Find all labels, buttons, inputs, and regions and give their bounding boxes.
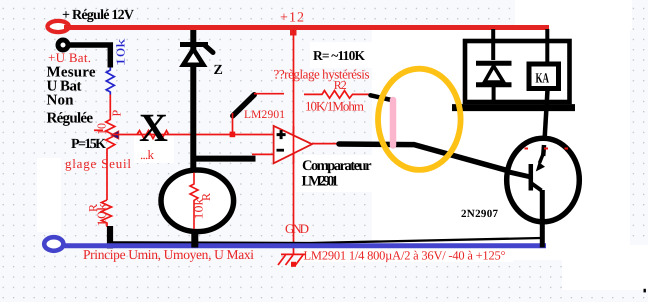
transistor collector stroke with arrow bbox=[540, 153, 544, 163]
+ input symbol bbox=[277, 130, 286, 139]
junction on + wire bbox=[230, 132, 236, 138]
svg-text:10: 10 bbox=[95, 123, 109, 135]
svg-text:GND: GND bbox=[285, 221, 309, 236]
svg-text:X: X bbox=[139, 105, 168, 150]
svg-text:+U Bat.: +U Bat. bbox=[48, 50, 91, 65]
wire: output to transistor base (thick black) bbox=[339, 144, 531, 177]
resistor 10k (blue zigzag) bbox=[106, 68, 114, 95]
svg-text:2N2907: 2N2907 bbox=[461, 208, 499, 220]
annotation: orange circle bbox=[378, 69, 461, 170]
node: battery sense terminal bbox=[58, 40, 68, 50]
flyback diode cathode bar bbox=[476, 61, 512, 66]
wire: +12V feed down to comparator supply (red vertical) bbox=[293, 29, 295, 254]
zener bent tail bbox=[205, 45, 214, 53]
resistor R2 (red zigzag horizontal) bbox=[304, 91, 372, 99]
svg-text:+ Régulé 12V: + Régulé 12V bbox=[62, 8, 134, 23]
potentiometer wiper arrow bbox=[111, 131, 119, 139]
svg-text:glage Seuil: glage Seuil bbox=[65, 156, 131, 171]
wire: reference tie bar to - input (black) bbox=[193, 156, 256, 162]
op-amp comparator U1 bbox=[274, 126, 312, 163]
flyback diode anode bar bbox=[476, 82, 512, 87]
flyback diode triangle bbox=[485, 66, 504, 82]
svg-text:Non: Non bbox=[47, 93, 75, 109]
galvanometer body bbox=[161, 170, 234, 232]
zener diode Z branch (vertical) bbox=[190, 30, 196, 171]
highlight: pink bar bbox=[390, 100, 397, 146]
bus bar under relay box bbox=[452, 104, 575, 111]
wire: KA to transistor collector bbox=[544, 90, 548, 153]
red pin marks bbox=[525, 148, 529, 150]
svg-text:LM2901: LM2901 bbox=[302, 174, 339, 190]
wire: switch to + wire bbox=[232, 113, 234, 133]
svg-text:R= ~110K: R= ~110K bbox=[313, 48, 365, 63]
junction: +12 feed on rail bbox=[290, 29, 297, 36]
resistor 10k R inside galvanometer bbox=[190, 173, 198, 230]
resistor R 10k (red zigzag, lower divider) bbox=[102, 200, 112, 227]
svg-text:+12: +12 bbox=[280, 11, 304, 26]
node: 0V terminal bbox=[44, 237, 63, 251]
ground symbol (red) bbox=[281, 253, 305, 255]
white eraser patches bbox=[372, 30, 630, 260]
svg-text:Principe Umin, Umoyen, U Maxi: Principe Umin, Umoyen, U Maxi bbox=[83, 247, 254, 262]
wire: R2 to collector node (black) bbox=[371, 95, 392, 100]
svg-text:LM2901 1/4 800µA/2 à 36V/ -40: LM2901 1/4 800µA/2 à 36V/ -40 à +125° bbox=[304, 249, 506, 263]
svg-text:Régulée: Régulée bbox=[47, 111, 94, 127]
wire: diode to box bottom bbox=[492, 85, 496, 103]
switch lever (black) bbox=[233, 95, 254, 116]
transistor base bar bbox=[529, 164, 534, 191]
wire: 0V rail (blue) bbox=[62, 243, 546, 248]
zener triangle bbox=[183, 49, 203, 65]
svg-text:P=15K: P=15K bbox=[71, 137, 106, 152]
svg-text:KA: KA bbox=[536, 72, 550, 87]
svg-text:10k: 10k bbox=[95, 203, 109, 227]
svg-text:Z: Z bbox=[214, 63, 223, 78]
- input symbol bbox=[277, 149, 285, 152]
wire: red link to - input bbox=[252, 153, 274, 155]
stray red dash bbox=[94, 129, 103, 131]
comparator supply line redraw over triangle bbox=[293, 126, 295, 163]
wire: switch top to supply bbox=[254, 93, 284, 95]
svg-text:Comparateur: Comparateur bbox=[302, 158, 372, 174]
wire: remnant black line along 0V rail bbox=[108, 238, 541, 243]
wire: wiper to comparator + input bbox=[113, 134, 274, 136]
wire: +12V rail bbox=[64, 25, 549, 30]
stray mark bbox=[644, 289, 646, 293]
wire: emitter down to 0V rail bbox=[540, 190, 545, 248]
zener cathode bar bbox=[180, 42, 208, 47]
svg-text:??règlage hystérésis: ??règlage hystérésis bbox=[274, 67, 370, 82]
relay coil KA box bbox=[529, 64, 559, 89]
wire: rail to flyback diode bbox=[491, 29, 495, 60]
wire: meter to 0V rail stub bbox=[191, 229, 198, 248]
svg-text:10K/1Mohm: 10K/1Mohm bbox=[305, 99, 364, 114]
wire: sense terminal to resistor bbox=[67, 45, 110, 68]
relay box bbox=[465, 41, 570, 102]
svg-text:10k: 10k bbox=[114, 39, 128, 67]
svg-text:LM2901: LM2901 bbox=[244, 109, 285, 121]
resistor (crossed out) on + input wire bbox=[137, 131, 169, 139]
wire: comparator output (red) bbox=[312, 143, 345, 145]
svg-text:P: P bbox=[110, 110, 124, 117]
transistor emitter stroke bbox=[531, 183, 542, 191]
wire: stub to 0V rail (black) bbox=[107, 226, 113, 249]
transistor Q1 2N2907 body bbox=[507, 138, 580, 222]
node: +12V input terminal bbox=[48, 21, 69, 32]
transistor collector entering line bbox=[541, 145, 546, 156]
wire: rail to relay coil bbox=[545, 29, 549, 64]
potentiometer P=15K body bbox=[106, 95, 115, 201]
transistor base wire inside bbox=[508, 172, 531, 177]
svg-text:R: R bbox=[199, 193, 213, 201]
